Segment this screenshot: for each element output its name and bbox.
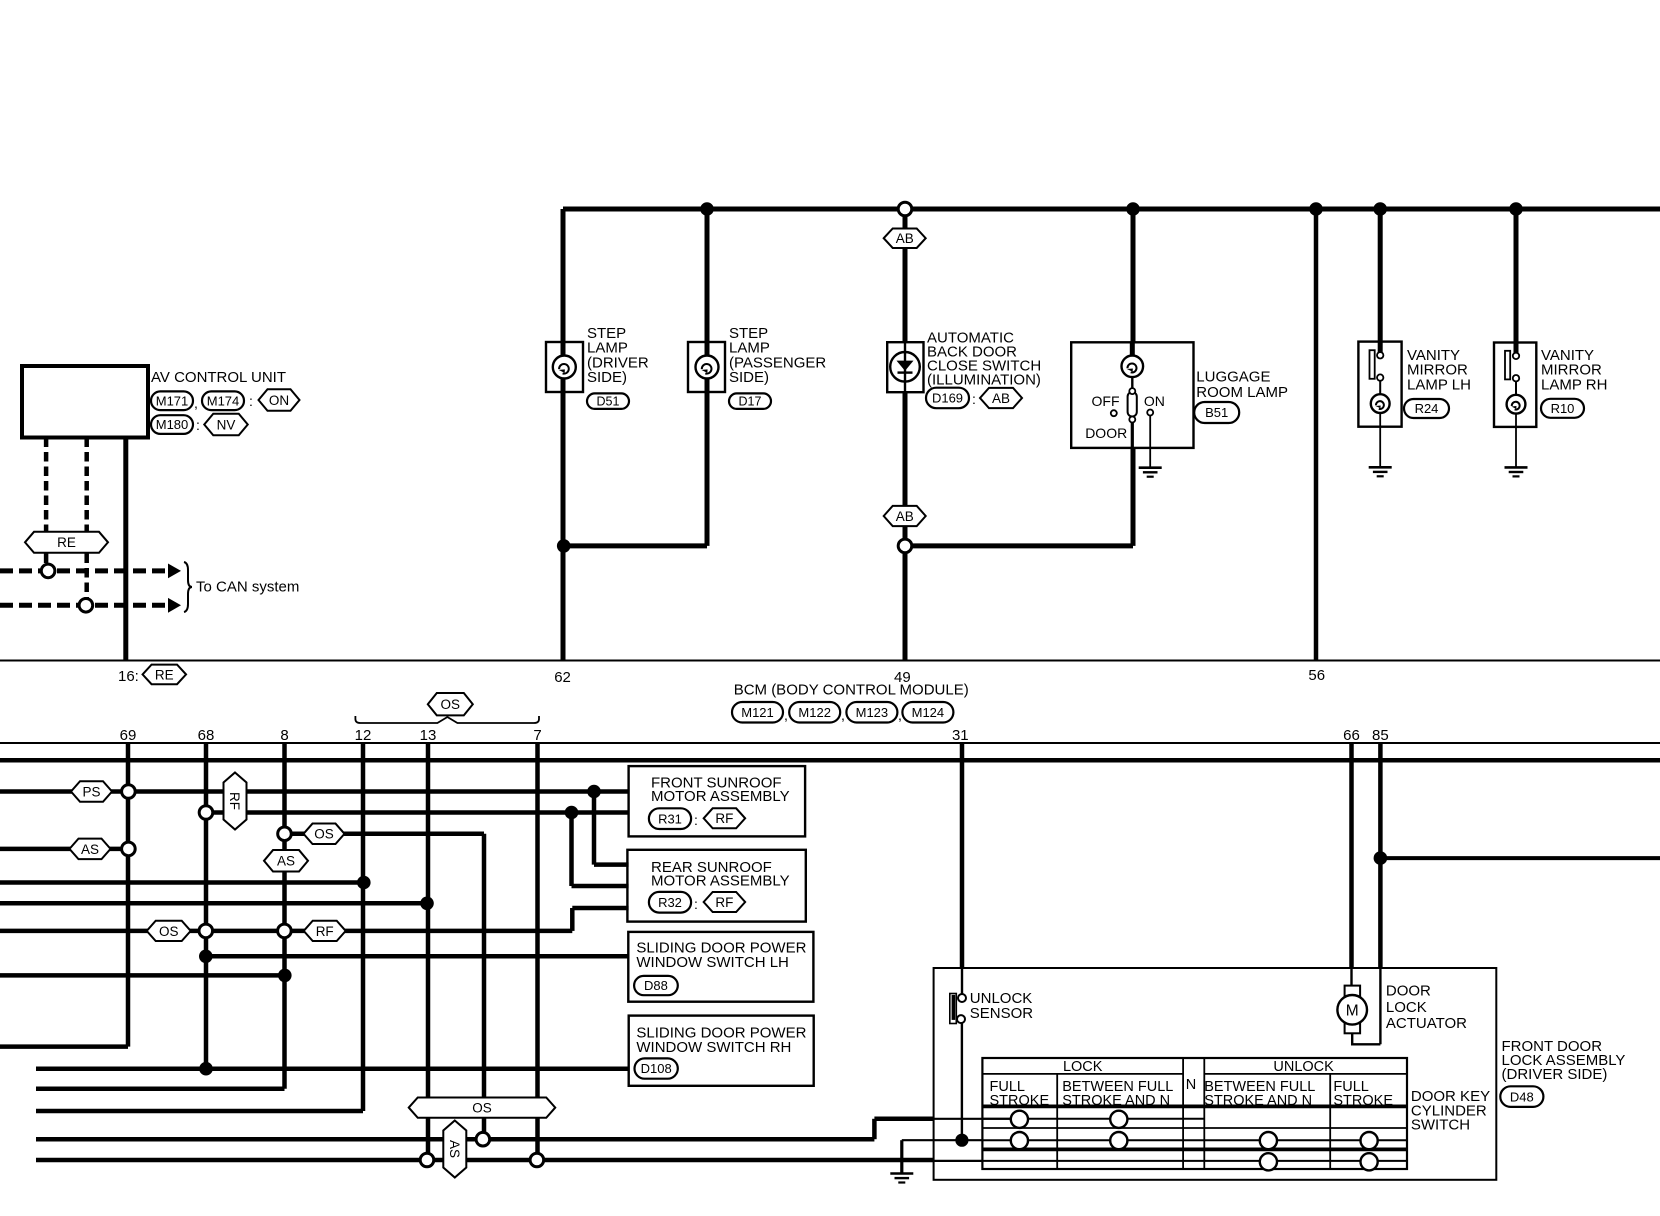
- wire lock rowA feed: [36, 1137, 874, 1142]
- arrow CAN-H: [168, 564, 181, 579]
- svg-text:56: 56: [1308, 667, 1325, 684]
- connector node OSdrop end: [476, 1132, 490, 1146]
- svg-text:,: ,: [784, 707, 788, 723]
- front sunroof motor box: [629, 766, 806, 836]
- wire motor bottom jog: [1352, 1033, 1380, 1044]
- vanity LH wire to ground: [1379, 413, 1381, 467]
- svg-text:SENSOR: SENSOR: [970, 1005, 1034, 1022]
- wire pin31 vertical: [960, 743, 965, 968]
- luggage switch to box bottom: [1131, 423, 1134, 448]
- svg-text:D108: D108: [641, 1061, 672, 1076]
- svg-text:M174: M174: [207, 393, 240, 408]
- svg-text:(ILLUMINATION): (ILLUMINATION): [927, 372, 1041, 389]
- table col line N right: [1203, 1058, 1205, 1169]
- svg-text:STROKE: STROKE: [1333, 1093, 1393, 1109]
- wire OS drop: [482, 834, 487, 1140]
- lamp symbol D51: [553, 356, 576, 379]
- table header row2 bottom thick: [982, 1105, 1407, 1109]
- junction front sunroof lower: [565, 806, 579, 820]
- CAN-H bus wire: [0, 568, 168, 573]
- svg-text:STROKE AND N: STROKE AND N: [1062, 1093, 1170, 1109]
- connector D51: [587, 393, 629, 409]
- svg-text:LOCK: LOCK: [1386, 999, 1427, 1016]
- svg-text::: :: [972, 391, 976, 407]
- connector M171: [151, 391, 193, 410]
- svg-text:66: 66: [1343, 727, 1360, 744]
- table rowA conductor: [982, 1118, 1204, 1120]
- table col line unlock split: [1329, 1074, 1331, 1169]
- wire pin85 vertical: [1378, 743, 1383, 968]
- wire rear sunroof wire1: [594, 862, 629, 867]
- option flag RF mid: [304, 921, 346, 941]
- table col line lock split: [1056, 1074, 1058, 1169]
- wire front sunroof upper drop: [592, 792, 597, 865]
- svg-text:AS: AS: [81, 842, 99, 857]
- connector D88: [634, 976, 678, 995]
- wire step lamp passenger drop: [705, 209, 710, 546]
- svg-text:OFF: OFF: [1092, 393, 1120, 409]
- svg-text:MOTOR ASSEMBLY: MOTOR ASSEMBLY: [651, 873, 790, 890]
- luggage lamp wire to switch: [1131, 377, 1133, 391]
- svg-text:UNLOCK: UNLOCK: [1273, 1059, 1334, 1075]
- table rowB conductor: [982, 1139, 1407, 1141]
- table col line N left: [1182, 1058, 1184, 1169]
- junction sliding LH pin68: [199, 950, 213, 964]
- luggage ON contact: [1147, 410, 1153, 416]
- junction front sunroof upper: [587, 785, 601, 799]
- option flag RE at pin16: [143, 665, 187, 685]
- svg-text:LOCK: LOCK: [1063, 1059, 1103, 1075]
- svg-text:AB: AB: [896, 231, 914, 246]
- option flag PS: [71, 781, 112, 802]
- vanity RH switch: [1505, 351, 1519, 382]
- wire vanity RH drop: [1514, 209, 1519, 355]
- luggage ON wire to ground: [1149, 416, 1151, 468]
- wire pin66 vertical: [1349, 743, 1354, 968]
- wire pin12 vertical: [361, 743, 366, 1111]
- connector R31: [649, 808, 691, 829]
- junction pin12 row: [357, 876, 371, 890]
- wire RF2 row: [0, 929, 572, 934]
- option flag RF R32: [704, 892, 746, 912]
- svg-text:68: 68: [198, 727, 215, 744]
- wire actuator 85 branch: [1380, 856, 1660, 860]
- connector D48: [1500, 1086, 1543, 1107]
- svg-text:M122: M122: [798, 705, 831, 720]
- wire lock rowC feed: [36, 1158, 934, 1163]
- svg-text:AS: AS: [447, 1140, 462, 1158]
- option flag AB top: [884, 228, 926, 248]
- svg-text:B51: B51: [1205, 405, 1228, 420]
- svg-text:M: M: [1346, 1002, 1359, 1019]
- wire lock rowA riser: [872, 1119, 877, 1139]
- connector node RF pin68: [199, 806, 213, 820]
- svg-text:DOOR: DOOR: [1386, 983, 1431, 1000]
- wire joining step lamps: [563, 543, 707, 548]
- wire pin69 vertical: [126, 743, 131, 1047]
- svg-text:N: N: [1186, 1077, 1196, 1093]
- connector D108: [635, 1058, 678, 1078]
- svg-text:ON: ON: [269, 393, 289, 408]
- contact lock full lower: [1011, 1132, 1028, 1149]
- lamp symbol luggage: [1122, 356, 1144, 378]
- connector M123: [846, 702, 897, 723]
- junction sliding RH pin68: [199, 1062, 213, 1076]
- connector M124: [902, 702, 953, 723]
- svg-text:M124: M124: [912, 705, 945, 720]
- illumination LED symbol: [890, 352, 920, 382]
- wire rear sunroof wire2: [572, 884, 629, 889]
- wire rear sunroof wire3: [572, 906, 628, 911]
- connector R32: [649, 892, 691, 913]
- svg-text:D48: D48: [1510, 1089, 1534, 1104]
- step lamp driver box: [546, 342, 583, 392]
- vanity RH wire to ground: [1515, 414, 1517, 468]
- connector M121: [732, 702, 783, 723]
- BCM top edge: [0, 660, 1660, 662]
- ground luggage: [1139, 468, 1162, 477]
- svg-text:R32: R32: [658, 895, 682, 910]
- svg-text:D169: D169: [932, 391, 963, 406]
- wire sliding LH row: [206, 954, 629, 959]
- svg-text:16:: 16:: [118, 668, 139, 685]
- connector R10: [1541, 399, 1584, 418]
- connector M122: [789, 702, 840, 723]
- sliding door RH box: [629, 1016, 814, 1086]
- connector node PS pin69: [122, 785, 136, 799]
- svg-text:PS: PS: [82, 784, 100, 799]
- svg-text:NV: NV: [217, 417, 236, 432]
- back door switch box: [887, 342, 923, 392]
- ground vanity LH: [1369, 467, 1392, 476]
- lamp symbol D17: [696, 356, 719, 379]
- option flag ON: [259, 389, 300, 411]
- wire AS row: [0, 847, 128, 852]
- svg-text:,: ,: [841, 707, 845, 723]
- connector B51: [1194, 402, 1239, 423]
- wire vanity LH drop: [1378, 209, 1383, 355]
- svg-text:WINDOW SWITCH RH: WINDOW SWITCH RH: [636, 1039, 791, 1056]
- svg-text:M171: M171: [156, 393, 189, 408]
- option flag RF vertical: [224, 773, 247, 830]
- svg-text:OS: OS: [314, 827, 334, 842]
- svg-text:SWITCH: SWITCH: [1411, 1117, 1470, 1134]
- sliding door LH box: [628, 932, 813, 1002]
- svg-text:8: 8: [280, 727, 288, 744]
- svg-text::: :: [694, 896, 698, 912]
- power bus wire: [563, 207, 1660, 212]
- brace To CAN system: [184, 562, 192, 612]
- junction 85 branch: [1374, 851, 1388, 865]
- AV control unit box: [22, 366, 148, 438]
- vanity LH box: [1358, 342, 1401, 427]
- lamp symbol vanity RH: [1507, 395, 1526, 414]
- lamp symbol vanity LH: [1371, 394, 1390, 413]
- ground door key cylinder: [890, 1174, 913, 1183]
- wire AV unit pin 16 to BCM: [123, 438, 128, 661]
- wire to pin8 row: [0, 973, 285, 978]
- option flag RE: [25, 532, 108, 553]
- dashed wire from AV unit pin (left CAN-H): [44, 438, 49, 571]
- wire pin68 vertical: [204, 743, 209, 1069]
- wire to pin12 row: [0, 880, 364, 885]
- wire pin31 inside box: [961, 968, 963, 994]
- wire lock rowA upper: [874, 1117, 933, 1122]
- svg-text:R24: R24: [1415, 401, 1439, 416]
- ground vanity RH: [1505, 467, 1528, 476]
- svg-text:OS: OS: [441, 697, 461, 712]
- arrow CAN-L: [168, 598, 181, 613]
- wire front sunroof lower drop: [569, 813, 574, 887]
- step lamp passenger box: [688, 342, 725, 392]
- contact lock between lower: [1110, 1132, 1127, 1149]
- wire PS row: [0, 789, 629, 794]
- svg-text:D51: D51: [597, 395, 620, 409]
- wire pin8 vertical: [282, 743, 287, 1089]
- option flag AS left: [70, 839, 111, 860]
- junction unlock sensor rowB: [955, 1134, 968, 1147]
- BCM bottom edge: [0, 742, 1660, 744]
- svg-text:AS: AS: [277, 854, 295, 869]
- vanity LH inner wire: [1379, 381, 1381, 395]
- full width wire below BCM: [0, 758, 1660, 763]
- connector node back door top: [898, 202, 912, 216]
- svg-text:R10: R10: [1551, 401, 1575, 416]
- svg-text:LAMP RH: LAMP RH: [1541, 376, 1607, 393]
- vanity RH inner wire: [1515, 381, 1517, 395]
- connector node RF2 pin68: [199, 924, 213, 938]
- wire to pin13 row: [0, 901, 427, 906]
- connector D169: [926, 388, 969, 409]
- wire sensor to rowB: [961, 1023, 963, 1140]
- wire rowB ground drop: [900, 1140, 903, 1173]
- svg-text:STROKE AND N: STROKE AND N: [1204, 1093, 1312, 1109]
- table rowC conductor: [982, 1160, 1407, 1162]
- svg-text:OS: OS: [472, 1100, 492, 1115]
- junction pin13 row: [420, 897, 434, 911]
- vanity LH switch: [1370, 350, 1384, 381]
- connector R24: [1404, 399, 1449, 418]
- connector node RF2 pin8: [278, 924, 292, 938]
- svg-text:STROKE: STROKE: [990, 1093, 1050, 1109]
- connector M174: [202, 391, 244, 410]
- front door lock assembly box: [934, 968, 1497, 1180]
- junction luggage lamp bus: [1126, 202, 1140, 216]
- svg-text:RE: RE: [57, 535, 76, 550]
- svg-text:AB: AB: [896, 509, 914, 524]
- svg-text:D17: D17: [739, 395, 762, 409]
- bracket over pins 12 13 7: [355, 716, 539, 723]
- vanity RH box: [1494, 343, 1536, 427]
- svg-text:12: 12: [355, 727, 372, 744]
- svg-text:DOOR: DOOR: [1085, 425, 1127, 441]
- svg-text:RF: RF: [227, 792, 242, 810]
- svg-text:RF: RF: [316, 924, 334, 939]
- svg-text:R31: R31: [658, 811, 682, 826]
- rear sunroof motor box: [627, 850, 805, 922]
- connector D17: [729, 393, 771, 409]
- contact unlock full upper: [1361, 1132, 1378, 1149]
- contact lock full upper: [1011, 1111, 1028, 1128]
- svg-text:ROOM LAMP: ROOM LAMP: [1196, 384, 1288, 401]
- svg-text:69: 69: [120, 727, 137, 744]
- svg-text:ON: ON: [1144, 393, 1165, 409]
- svg-text::: :: [196, 417, 200, 433]
- door key switch table frame: [982, 1058, 1407, 1169]
- option flag RF R31: [704, 808, 746, 828]
- svg-text:M121: M121: [741, 705, 774, 720]
- option flag AB bottom: [884, 506, 926, 526]
- wire luggage to back door node: [905, 543, 1133, 548]
- svg-text:RE: RE: [155, 667, 174, 682]
- svg-text:,: ,: [194, 395, 198, 411]
- svg-text:WINDOW SWITCH LH: WINDOW SWITCH LH: [636, 954, 788, 971]
- wire pin13 vertical: [426, 743, 431, 1160]
- wire pin85 inside box: [1379, 968, 1381, 1044]
- junction vanity LH bus: [1373, 202, 1387, 216]
- connector node back door bottom: [898, 539, 912, 553]
- svg-text:D88: D88: [644, 978, 668, 993]
- table mid thin line: [982, 1127, 1407, 1129]
- connector node pin7 end: [530, 1153, 544, 1167]
- svg-text:AV CONTROL UNIT: AV CONTROL UNIT: [151, 369, 286, 386]
- option flag OS big: [409, 1097, 556, 1117]
- svg-text:SIDE): SIDE): [587, 369, 627, 386]
- wire step lamp driver to BCM 62: [561, 546, 566, 661]
- connector node pin13 end: [420, 1153, 434, 1167]
- junction pin8 row: [278, 969, 292, 983]
- luggage OFF contact: [1111, 410, 1117, 416]
- table mid thick line: [982, 1148, 1407, 1152]
- wire sliding RH row: [36, 1066, 629, 1071]
- wire BCM pin 56 riser: [1314, 209, 1319, 661]
- option flag AB label: [980, 388, 1022, 408]
- luggage room lamp box: [1071, 342, 1193, 448]
- table header underline UNLOCK: [1204, 1073, 1407, 1075]
- svg-text:SIDE): SIDE): [729, 369, 769, 386]
- svg-text:62: 62: [554, 669, 571, 686]
- svg-text:7: 7: [533, 727, 541, 744]
- wire luggage lamp to node: [1131, 448, 1136, 546]
- junction vanity RH bus: [1509, 202, 1523, 216]
- luggage lamp inner wire top: [1130, 342, 1135, 357]
- svg-text:85: 85: [1372, 727, 1389, 744]
- contact lock between upper: [1110, 1111, 1127, 1128]
- svg-text::: :: [249, 393, 253, 409]
- contact unlock between upper: [1260, 1132, 1277, 1149]
- wire rear sunroof riser: [570, 908, 575, 931]
- svg-text:LAMP LH: LAMP LH: [1407, 376, 1471, 393]
- wire pin12 bottom row: [36, 1109, 363, 1114]
- wire lock rowC inside box: [934, 1160, 983, 1162]
- svg-text:,: ,: [898, 707, 902, 723]
- contact unlock full lower: [1361, 1153, 1378, 1170]
- junction step lamps bus: [700, 202, 714, 216]
- connector M180: [151, 415, 193, 434]
- dashed wire from AV unit pin (CAN-L): [84, 438, 89, 606]
- svg-text:OS: OS: [159, 924, 179, 939]
- wire step lamp driver drop: [561, 209, 566, 546]
- option flag OS above pins: [428, 693, 473, 715]
- wire lock rowA inside box: [934, 1118, 1011, 1120]
- wire OS row: [285, 832, 485, 837]
- connector node OS pin8: [278, 827, 292, 841]
- wire pin7 vertical: [535, 743, 540, 1160]
- connector node AS pin69: [122, 842, 136, 856]
- svg-text:RF: RF: [715, 811, 733, 826]
- option flag AS mid: [264, 850, 308, 872]
- connector node on CAN-L: [79, 599, 93, 613]
- wire pin66 inside box: [1350, 968, 1352, 986]
- door lock actuator motor: [1337, 986, 1367, 1034]
- svg-text:(DRIVER SIDE): (DRIVER SIDE): [1502, 1066, 1608, 1083]
- unlock sensor symbol: [950, 994, 966, 1024]
- svg-text:AB: AB: [992, 391, 1010, 406]
- luggage door switch: [1128, 388, 1137, 422]
- svg-text:13: 13: [420, 727, 437, 744]
- option flag OS mid: [304, 824, 345, 845]
- CAN-L bus wire: [0, 603, 168, 608]
- option flag AS bottom: [443, 1121, 466, 1178]
- wire back door switch drop: [903, 209, 908, 661]
- wire pin69 bottom row: [0, 1044, 128, 1049]
- contact unlock between lower: [1260, 1153, 1277, 1170]
- junction step lamps bottom: [557, 539, 571, 553]
- junction pin56 bus: [1309, 202, 1323, 216]
- option flag OS row2: [147, 921, 191, 941]
- wire luggage lamp drop: [1131, 209, 1136, 342]
- svg-text:31: 31: [952, 727, 969, 744]
- svg-text:M123: M123: [856, 705, 889, 720]
- svg-text:ACTUATOR: ACTUATOR: [1386, 1015, 1467, 1032]
- svg-text::: :: [694, 812, 698, 828]
- svg-text:To CAN system: To CAN system: [196, 579, 299, 596]
- wire RF row: [206, 810, 629, 815]
- svg-text:BCM (BODY CONTROL MODULE): BCM (BODY CONTROL MODULE): [734, 682, 969, 699]
- svg-text:RF: RF: [715, 895, 733, 910]
- svg-text:MOTOR ASSEMBLY: MOTOR ASSEMBLY: [651, 788, 790, 805]
- svg-text:M180: M180: [156, 417, 189, 432]
- table header underline LOCK: [982, 1073, 1183, 1075]
- option flag NV: [204, 414, 248, 436]
- connector node on CAN-H: [41, 564, 55, 578]
- wire lock rowB: [902, 1139, 983, 1141]
- wire pin8 bottom row: [36, 1086, 285, 1091]
